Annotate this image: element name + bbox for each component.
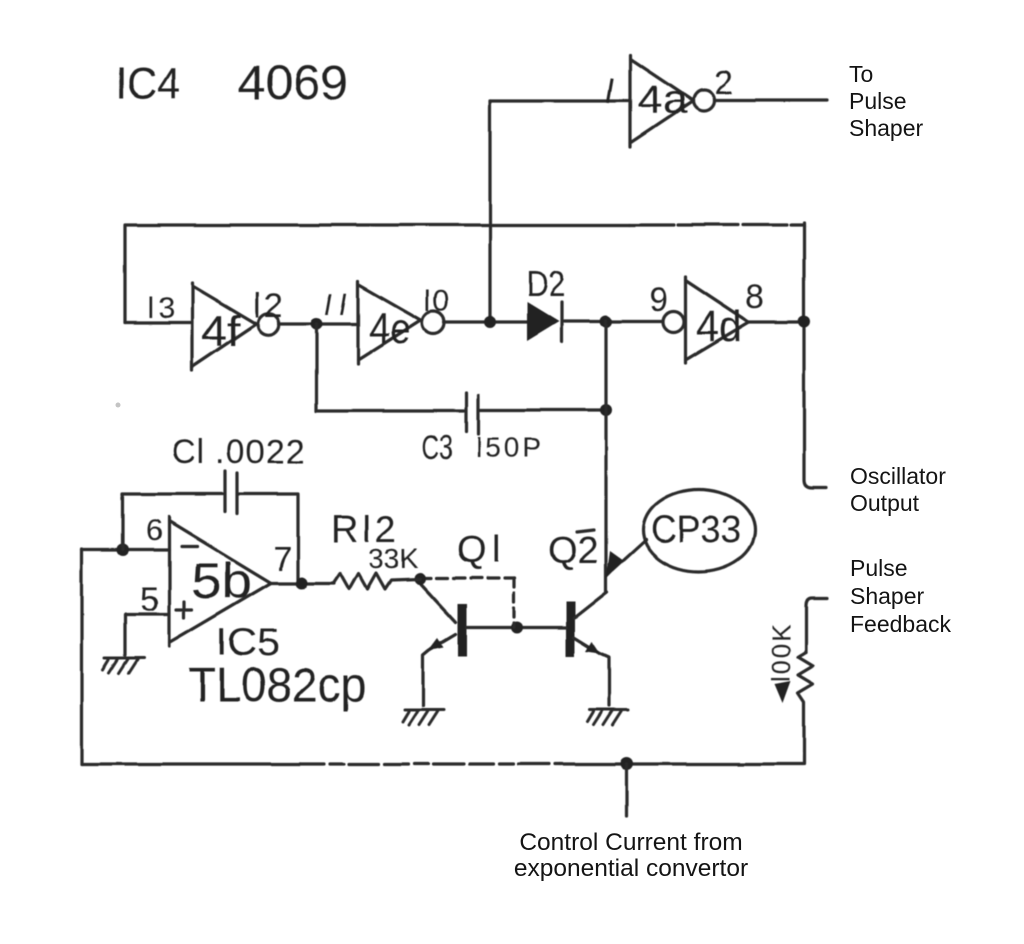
svg-text:ll: ll — [322, 289, 357, 322]
svg-text:l0: l0 — [424, 285, 451, 318]
svg-text:7: 7 — [273, 540, 292, 578]
svg-text:To: To — [849, 61, 873, 87]
svg-text:9: 9 — [649, 281, 668, 319]
svg-text:5b: 5b — [191, 553, 252, 609]
svg-text:4a: 4a — [637, 78, 688, 122]
svg-text:TL082cp: TL082cp — [188, 659, 366, 712]
svg-text:l: l — [603, 73, 617, 112]
svg-text:exponential convertor: exponential convertor — [514, 855, 748, 882]
svg-text:6: 6 — [146, 514, 163, 547]
svg-text:5: 5 — [140, 581, 159, 619]
svg-text:l50P: l50P — [476, 432, 544, 463]
svg-text:Pulse: Pulse — [850, 555, 908, 581]
svg-text:Control Current from: Control Current from — [519, 829, 742, 856]
svg-text:Shaper: Shaper — [849, 115, 924, 141]
svg-text:Output: Output — [850, 490, 920, 516]
svg-text:4e: 4e — [369, 304, 411, 353]
svg-text:Cl .0022: Cl .0022 — [171, 433, 306, 471]
svg-text:2: 2 — [714, 64, 733, 102]
svg-text:IC4: IC4 — [116, 59, 180, 108]
svg-text:l00K: l00K — [766, 622, 796, 682]
svg-text:Ql: Ql — [457, 529, 507, 571]
svg-text:33K: 33K — [368, 543, 418, 574]
svg-text:8: 8 — [746, 278, 765, 316]
svg-text:l3: l3 — [147, 292, 178, 325]
svg-text:Oscillator: Oscillator — [850, 463, 946, 489]
svg-text:D2: D2 — [526, 263, 565, 304]
svg-text:Shaper: Shaper — [850, 583, 925, 609]
svg-text:Pulse: Pulse — [849, 88, 907, 114]
svg-text:Q2: Q2 — [548, 530, 599, 572]
svg-text:l2: l2 — [253, 287, 285, 325]
svg-text:CP33: CP33 — [651, 509, 741, 551]
svg-text:IC5: IC5 — [216, 622, 280, 664]
svg-text:4069: 4069 — [238, 57, 348, 110]
svg-text:4f: 4f — [201, 307, 241, 356]
svg-text:C3: C3 — [422, 429, 453, 467]
svg-text:Feedback: Feedback — [850, 611, 952, 637]
svg-text:4d: 4d — [696, 302, 742, 351]
